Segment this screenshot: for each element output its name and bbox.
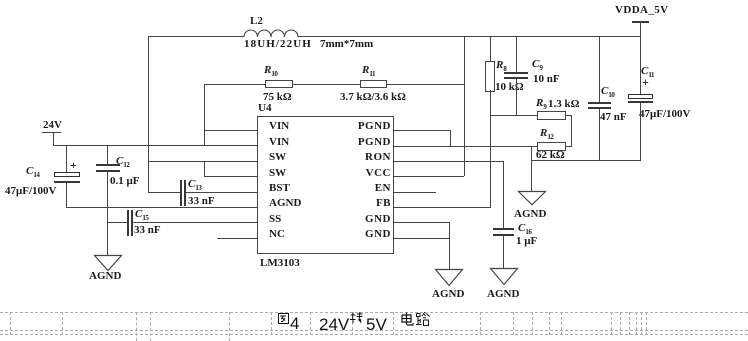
resistor R9 [536, 98, 546, 113]
wire R9 right [565, 115, 572, 116]
pin VCC [366, 168, 391, 179]
pin BST [269, 183, 290, 194]
resistor R12 [540, 128, 553, 143]
wire R9-R12 link [571, 115, 572, 146]
caption 电 glyph [400, 312, 414, 327]
table gridlines vertical [10, 312, 11, 335]
wire FB node to R9 [490, 115, 538, 116]
table gridline horizontal 3 [0, 334, 748, 335]
ground AGND left [94, 255, 122, 272]
wire VIN tap vertical [204, 84, 205, 146]
caption 路 glyph [416, 312, 430, 327]
node 24V label [43, 120, 62, 131]
caption text 4 [290, 317, 299, 331]
wire VIN tap to R10 [204, 84, 265, 85]
pin SS [269, 214, 281, 225]
caption 转 glyph [350, 312, 363, 324]
node VDDA_5V [615, 5, 669, 16]
wire GND1 [393, 222, 449, 223]
pin NC [269, 229, 285, 240]
pin RON [365, 152, 391, 163]
capacitor C11 [640, 22, 641, 95]
ground AGND mid right [518, 191, 546, 206]
wire R10 to R11 [292, 84, 360, 85]
resistor R11 [362, 65, 375, 80]
pin VIN 2 [269, 137, 289, 148]
wire EN stub [393, 192, 436, 193]
capacitor C16 [503, 161, 504, 229]
wire PGND2 to R12 [393, 146, 538, 147]
wire SS [133, 222, 257, 223]
caption text 24V [319, 318, 349, 331]
wire FB [393, 207, 491, 208]
resistor R10 [264, 65, 277, 80]
pin GND 1 [365, 214, 391, 225]
wire AGND rail left [66, 207, 257, 208]
capacitor C13 [148, 192, 180, 193]
pin SW 2 [269, 168, 286, 179]
capacitor C12 [107, 145, 108, 165]
wire AGND rail right [531, 160, 641, 161]
pin PGND 1 [358, 121, 391, 132]
caption text 5V [366, 318, 387, 331]
wire PGND1 [393, 130, 450, 131]
wire SW1 [148, 161, 257, 162]
wire VCC [393, 176, 464, 177]
table gridline horizontal 2 [0, 330, 748, 331]
wire top left of L2 [148, 36, 244, 37]
pin GND 2 [365, 229, 391, 240]
op-amp U4 IC box LM3103 [258, 103, 271, 114]
wire VCC/R11 vertical to top rail [464, 36, 465, 176]
pin FB [376, 198, 391, 209]
wire NC stub [217, 238, 257, 239]
wire L2 left drop to SW/BST [148, 36, 149, 192]
wire top right of L2 to VDDA [298, 36, 641, 37]
wire VIN1 [204, 130, 257, 131]
ground AGND under C16 [490, 268, 518, 286]
capacitor C9 [516, 36, 517, 73]
wire GND down [449, 222, 450, 269]
pin VIN 1 [269, 121, 289, 132]
capacitor C14 [66, 145, 67, 173]
wire PGND1 down link [450, 130, 451, 146]
wire SW1-SW2 link [204, 161, 205, 176]
capacitor C15 [107, 222, 127, 223]
pin EN [375, 183, 391, 194]
table gridline horizontal 1 [0, 312, 748, 313]
wire R11 right [386, 84, 464, 85]
pin AGND [269, 198, 301, 209]
wire GND2 [393, 238, 449, 239]
node 24V tick [42, 132, 61, 133]
wire R12 right [565, 146, 572, 147]
wire 24V bus to VIN2 [53, 145, 257, 146]
resistor R8 [490, 36, 491, 61]
wire SW2 [204, 176, 257, 177]
wire AGND drop right [531, 146, 532, 191]
wire R8 bottom / FB vertical [490, 90, 491, 207]
capacitor C10 [599, 36, 600, 103]
ground AGND under GND pins [435, 269, 463, 287]
pin SW 1 [269, 152, 286, 163]
inductor L2 [250, 16, 263, 27]
wire RON [393, 161, 503, 162]
pin PGND 2 [358, 137, 391, 148]
wire 24V drop [53, 132, 54, 146]
caption 图 glyph [278, 313, 289, 324]
wire BST [186, 192, 257, 193]
